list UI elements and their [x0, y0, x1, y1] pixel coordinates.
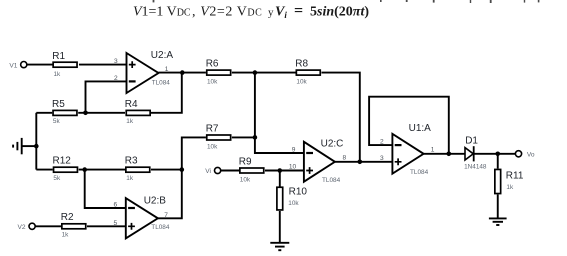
- resistor R4: [125, 99, 150, 125]
- resistor R12: [53, 156, 78, 182]
- svg-text:10: 10: [289, 163, 297, 170]
- junction node R5/R4 (pin2 net): [83, 111, 88, 116]
- terminal V1: [9, 62, 26, 70]
- resistor R5: [52, 99, 77, 125]
- terminal Vi: [205, 167, 221, 175]
- ground under R10: [270, 243, 289, 250]
- svg-text:R3: R3: [125, 156, 138, 167]
- svg-text:3: 3: [380, 155, 384, 162]
- terminal V2: [18, 223, 36, 231]
- svg-text:TL084: TL084: [410, 169, 429, 176]
- wire R1 to U2:A pin3: [79, 64, 127, 66]
- resistor R2: [61, 212, 86, 239]
- resistor R11 (vertical): [495, 169, 524, 193]
- junction node U2:A output: [180, 70, 185, 75]
- svg-text:3: 3: [114, 58, 118, 65]
- svg-text:R1: R1: [52, 51, 65, 62]
- svg-text:7: 7: [164, 212, 168, 219]
- junction node U2:C out: [358, 160, 363, 165]
- junction node D1/R11: [495, 152, 500, 157]
- wire Vi to R9 to pin10: [221, 170, 304, 172]
- svg-text:Vo: Vo: [527, 151, 535, 158]
- svg-text:V2: V2: [18, 224, 26, 231]
- svg-text:,: ,: [192, 5, 196, 20]
- resistor R10 (vertical): [277, 187, 307, 210]
- resistor R9: [239, 156, 264, 183]
- svg-text:10k: 10k: [240, 176, 251, 183]
- wire pin6 drop: [85, 170, 126, 208]
- wire R10 stem: [279, 171, 281, 243]
- svg-text:R12: R12: [53, 156, 72, 167]
- svg-text:1N4148: 1N4148: [464, 164, 487, 171]
- junction node R12/R3 (pin6 net): [82, 167, 87, 172]
- wire U1:A output to D1: [424, 153, 465, 155]
- svg-text:10k: 10k: [288, 200, 299, 207]
- wire U2:A pin2 feedback down: [86, 81, 127, 112]
- wire D1 to Vo: [474, 153, 516, 155]
- svg-text:R9: R9: [239, 156, 252, 167]
- resistor R3: [125, 156, 150, 182]
- ground under R11: [489, 218, 507, 225]
- svg-text:TL084: TL084: [322, 177, 341, 184]
- wire U2:B output bus up: [158, 137, 206, 218]
- svg-text:D1: D1: [465, 136, 478, 147]
- junction node R7/bus: [253, 135, 258, 140]
- svg-text:Vi: Vi: [205, 168, 211, 175]
- svg-text:R5: R5: [52, 99, 65, 110]
- svg-text:V2=2 VDC: V2=2 VDC: [200, 5, 262, 20]
- svg-text:1: 1: [165, 66, 169, 73]
- svg-text:V1=1 VDC: V1=1 VDC: [133, 5, 191, 20]
- svg-text:U2:A: U2:A: [151, 50, 174, 61]
- svg-text:5sin(20πt): 5sin(20πt): [310, 5, 369, 20]
- svg-text:1k: 1k: [126, 118, 134, 125]
- wire V2 to R2 to pin5: [35, 225, 126, 227]
- wire U2:A output row to R6 R8: [159, 73, 360, 162]
- svg-text:1k: 1k: [506, 184, 514, 191]
- svg-text:y: y: [268, 7, 274, 19]
- svg-text:=: =: [294, 3, 303, 20]
- svg-text:TL084: TL084: [152, 79, 171, 86]
- op-amp U2:A: [114, 50, 173, 93]
- wire ground tap: [22, 145, 37, 147]
- svg-text:R2: R2: [61, 212, 74, 223]
- resistor R1: [52, 51, 77, 78]
- svg-text:5: 5: [114, 220, 118, 227]
- junction node ground tap: [34, 144, 39, 149]
- wire left bus: [35, 113, 37, 170]
- svg-text:10k: 10k: [296, 79, 307, 86]
- resistor R7: [206, 123, 231, 150]
- op-amp U2:B: [114, 196, 170, 239]
- diode D1: [464, 136, 487, 171]
- wire mid bus down to pin9: [255, 73, 304, 153]
- svg-text:U2:B: U2:B: [144, 196, 167, 207]
- junction node R9/R10: [278, 168, 283, 173]
- junction node R6/R8: [253, 70, 258, 75]
- svg-text:TL084: TL084: [151, 224, 170, 231]
- svg-text:1k: 1k: [62, 232, 70, 239]
- svg-text:U1:A: U1:A: [409, 123, 432, 134]
- svg-text:8: 8: [343, 155, 347, 162]
- wire R5 row: [36, 73, 182, 113]
- junction node R3/bus: [180, 167, 185, 172]
- svg-text:R8: R8: [295, 59, 308, 70]
- resistor R8: [295, 59, 320, 86]
- svg-text:10k: 10k: [207, 143, 218, 150]
- svg-text:R10: R10: [289, 187, 308, 198]
- junction node U1:A out: [447, 152, 452, 157]
- wire R7 to mid bus: [232, 136, 255, 138]
- wire U1:A feedback loop: [369, 97, 449, 154]
- svg-text:10k: 10k: [207, 79, 218, 86]
- op-amp U1:A: [380, 123, 435, 176]
- svg-text:R4: R4: [125, 99, 138, 110]
- op-amp U2:C: [289, 138, 347, 184]
- title equation text: [133, 3, 369, 21]
- wire R11 stem: [497, 154, 499, 218]
- svg-text:9: 9: [292, 147, 296, 154]
- terminal Vo: [515, 151, 535, 159]
- svg-text:R6: R6: [206, 59, 219, 70]
- cut-off text remnants top edge: [153, 0, 540, 3]
- svg-text:1k: 1k: [54, 71, 62, 78]
- svg-text:1k: 1k: [126, 175, 134, 182]
- svg-text:U2:C: U2:C: [321, 138, 344, 149]
- wire R12 R3 row: [36, 169, 182, 171]
- ground left (sideways): [13, 138, 22, 154]
- svg-text:1: 1: [431, 147, 435, 154]
- wire U2:C output to U1:A pin3: [335, 161, 393, 163]
- wire V1 to R1: [27, 64, 53, 66]
- svg-text:6: 6: [114, 202, 118, 209]
- svg-text:2: 2: [114, 75, 118, 82]
- svg-text:R7: R7: [206, 123, 219, 134]
- svg-text:2: 2: [380, 138, 384, 145]
- svg-text:5k: 5k: [53, 175, 61, 182]
- svg-text:R11: R11: [506, 171, 524, 182]
- resistor R6: [206, 59, 231, 86]
- svg-text:V1: V1: [9, 62, 17, 69]
- svg-text:5k: 5k: [53, 118, 61, 125]
